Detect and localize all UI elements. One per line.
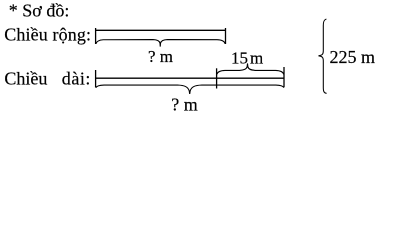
- svg-text:15 m: 15 m: [231, 49, 263, 68]
- length bar left tick: [95, 70, 97, 88]
- svg-text:Chiều: Chiều: [4, 68, 47, 88]
- length bar top line: [96, 77, 284, 79]
- svg-text:Chiều rộng:: Chiều rộng:: [4, 25, 91, 45]
- svg-text:? m: ? m: [148, 47, 173, 66]
- 15m overbrace: [217, 63, 284, 74]
- width bar left tick: [95, 28, 97, 44]
- svg-text:225 m: 225 m: [330, 47, 376, 67]
- total right brace: [319, 19, 327, 93]
- width bar right tick: [225, 28, 227, 44]
- length underbrace: [96, 85, 284, 94]
- svg-text:* Sơ đồ:: * Sơ đồ:: [9, 1, 70, 21]
- width bar top line: [96, 29, 226, 31]
- svg-text:? m: ? m: [171, 94, 198, 112]
- length bar right tick: [283, 67, 285, 87]
- length bar divider tick: [216, 68, 218, 88]
- svg-text:dài:: dài:: [62, 68, 91, 88]
- width underbrace: [96, 40, 225, 47]
